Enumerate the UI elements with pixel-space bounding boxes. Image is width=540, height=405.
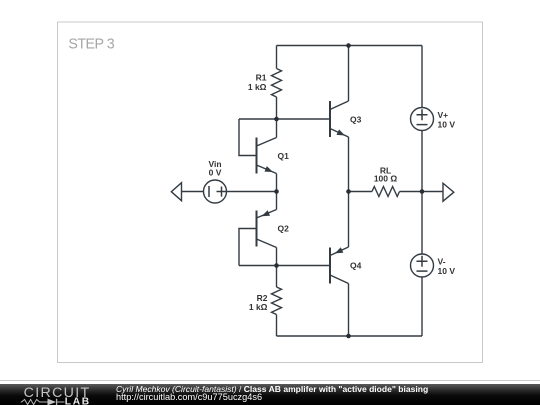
svg-text:Q2: Q2 [278,224,290,234]
svg-text:Q3: Q3 [350,115,362,125]
svg-text:STEP 3: STEP 3 [68,36,114,52]
svg-text:Q4: Q4 [350,261,362,271]
svg-text:1 kΩ: 1 kΩ [249,302,268,312]
svg-text:10 V: 10 V [438,266,456,276]
svg-text:100 Ω: 100 Ω [374,174,398,184]
svg-text:LAB: LAB [65,397,91,405]
svg-text:Q1: Q1 [278,151,290,161]
svg-text:10 V: 10 V [438,119,456,129]
svg-text:0 V: 0 V [209,168,222,178]
svg-text:1 kΩ: 1 kΩ [248,82,267,92]
